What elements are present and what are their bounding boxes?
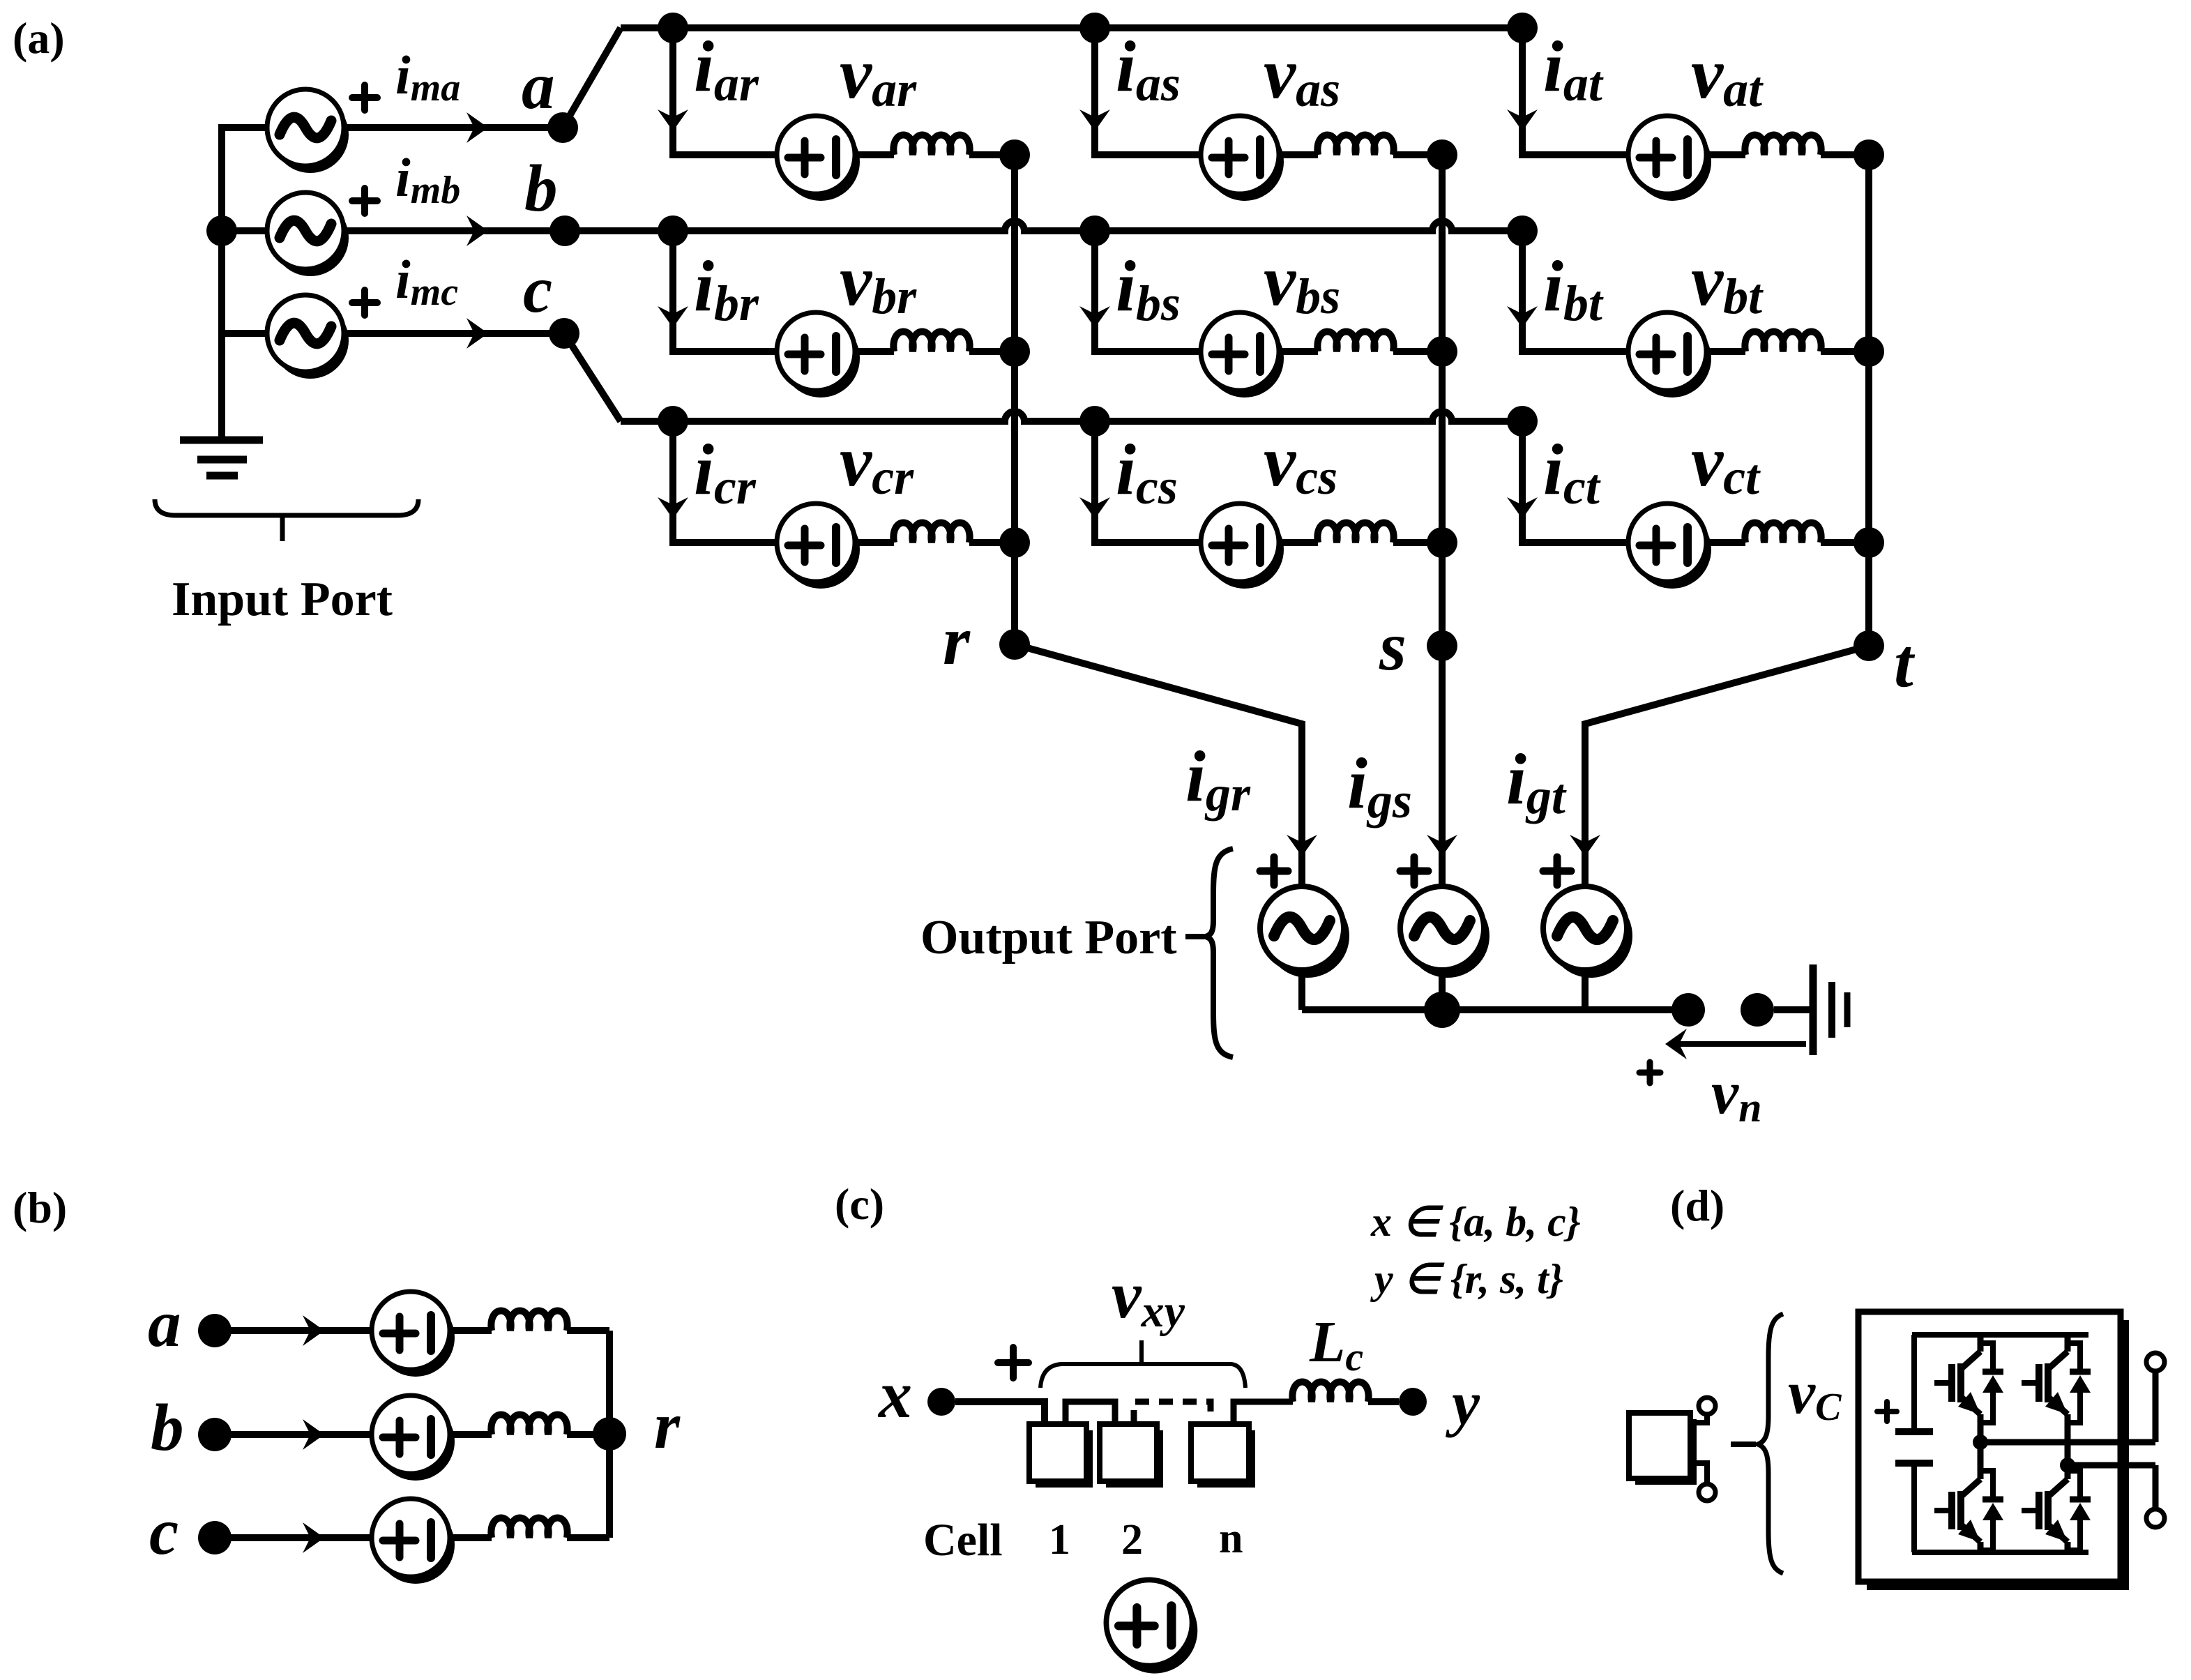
svg-text:b: b bbox=[524, 151, 558, 225]
svg-text:x: x bbox=[877, 1357, 912, 1432]
svg-text:x ∈ {a, b, c}: x ∈ {a, b, c} bbox=[1370, 1199, 1581, 1245]
svg-text:Output Port: Output Port bbox=[920, 911, 1177, 964]
svg-text:c: c bbox=[149, 1494, 179, 1568]
svg-text:(b): (b) bbox=[13, 1183, 67, 1232]
svg-text:c: c bbox=[523, 252, 552, 326]
svg-text:(d): (d) bbox=[1670, 1181, 1724, 1230]
svg-text:r: r bbox=[654, 1388, 681, 1462]
svg-text:2: 2 bbox=[1121, 1516, 1143, 1564]
svg-text:b: b bbox=[151, 1391, 184, 1465]
svg-text:a: a bbox=[148, 1287, 181, 1361]
svg-text:a: a bbox=[522, 49, 555, 123]
svg-text:t: t bbox=[1894, 624, 1916, 702]
svg-text:(a): (a) bbox=[13, 13, 65, 63]
svg-text:(c): (c) bbox=[835, 1179, 884, 1229]
svg-text:Cell: Cell bbox=[923, 1515, 1003, 1566]
svg-text:n: n bbox=[1219, 1515, 1243, 1562]
svg-text:1: 1 bbox=[1049, 1516, 1070, 1564]
svg-text:Input Port: Input Port bbox=[172, 573, 393, 626]
svg-text:r: r bbox=[943, 602, 971, 679]
svg-text:y ∈ {r, s, t}: y ∈ {r, s, t} bbox=[1370, 1256, 1563, 1302]
svg-text:s: s bbox=[1379, 607, 1407, 685]
